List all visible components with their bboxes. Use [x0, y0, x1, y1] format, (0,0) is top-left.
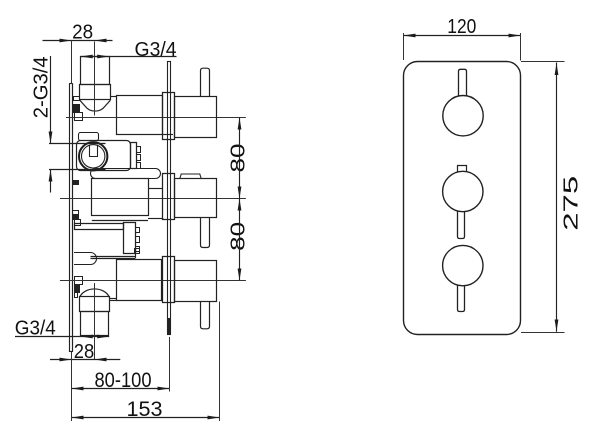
axis line level 1: [66, 117, 246, 119]
side port boss: [77, 141, 131, 171]
knob circle 3: [443, 245, 483, 285]
knob 2 body: [175, 179, 217, 218]
svg-text:80: 80: [228, 222, 250, 251]
adjuster ribs lower: [124, 223, 140, 254]
dim 275 line: [521, 62, 565, 333]
dim 28 bottom line: [50, 358, 120, 362]
side port keyway: [90, 145, 98, 157]
knob 1 body: [175, 97, 217, 138]
knob 1 lever: [201, 68, 210, 97]
upper cartridge body: [111, 96, 173, 135]
dim 80 upper text: [228, 144, 250, 173]
bottom outlet pipe: [81, 312, 109, 336]
label G3/4 top leader: [81, 55, 177, 59]
side port cap strip: [79, 133, 99, 141]
upper link bar: [91, 169, 161, 179]
side port circle inner: [82, 145, 105, 168]
knob 2 lever: [201, 218, 210, 248]
mounting lug: [74, 253, 97, 265]
axis line level 3: [60, 280, 246, 282]
label 2-G3/4 text: [30, 56, 52, 118]
top inlet pipe: [81, 57, 110, 85]
escutcheon collar 1: [163, 93, 175, 140]
plate screw 4: [75, 277, 83, 298]
dim 153 text: [127, 398, 163, 421]
dim 120 text: [447, 16, 476, 38]
trim plate edge: [168, 62, 171, 335]
plate screw 3: [73, 211, 81, 226]
trim plate front: [404, 62, 521, 335]
label G3/4 bottom leader: [15, 335, 109, 339]
dim 28 bottom text: [74, 341, 95, 363]
dim 80 lines: [238, 117, 242, 280]
bottom pipe center line: [94, 283, 96, 360]
top pipe center line: [94, 42, 96, 116]
knob circle 2: [443, 171, 483, 211]
svg-text:80: 80: [228, 144, 250, 173]
dim 80-100 text: [95, 369, 152, 392]
escutcheon collar 3: [163, 257, 175, 303]
adjuster ribs upper: [131, 143, 141, 169]
label G3/4 bottom text: [15, 318, 56, 340]
plate tab 2: [73, 181, 79, 185]
knob 3 stem front: [458, 285, 465, 311]
svg-text:120: 120: [447, 16, 476, 38]
knob 3 lever: [201, 301, 210, 329]
knob 3 body: [175, 261, 217, 302]
top union nut: [80, 85, 111, 100]
svg-text:G3/4: G3/4: [135, 39, 177, 61]
middle cartridge body: [92, 179, 164, 221]
dim 28 top text: [72, 22, 93, 44]
bottom dome joint: [80, 289, 109, 297]
lower link rod: [91, 248, 140, 258]
knob 2 nub front: [458, 166, 467, 172]
label 2-G3/4 leader: [49, 56, 106, 193]
dim 80-100 line: [72, 337, 170, 392]
label G3/4 top text: [135, 39, 177, 61]
knob 2 stem front: [458, 211, 465, 238]
lower link bar: [75, 224, 124, 230]
svg-text:2-G3/4: 2-G3/4: [30, 56, 52, 118]
dim 153 line: [72, 302, 220, 422]
knob circle 1: [443, 96, 483, 136]
dim 275 text: [561, 176, 583, 231]
knob 1 stem front: [459, 69, 467, 96]
axis line level 2: [60, 198, 246, 200]
dim 80 lower text: [228, 222, 250, 251]
escutcheon collar 2: [163, 174, 175, 220]
svg-text:275: 275: [561, 176, 583, 231]
dim 120 line: [404, 33, 521, 61]
wall mounting plate: [70, 83, 73, 352]
top funnel joint: [80, 100, 111, 111]
side port circle outer: [79, 142, 107, 170]
plate screw 1: [74, 97, 83, 121]
dim 28 top line: [43, 39, 113, 84]
bottom union nut: [80, 297, 110, 312]
lower cartridge body: [110, 260, 162, 301]
trim plate dark cap: [169, 319, 171, 335]
knob 2 nub: [180, 174, 201, 179]
